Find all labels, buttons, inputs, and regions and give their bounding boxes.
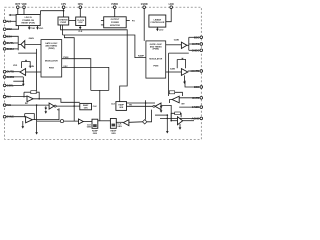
pin GNDB (left) [3, 76, 6, 79]
wire lower loop to A5 [37, 108, 59, 119]
svg-text:(PWM): (PWM) [48, 48, 55, 50]
svg-text:GEN: GEN [84, 107, 89, 109]
op-amp A7 (points left) [123, 120, 129, 126]
block S4 timer right [110, 119, 116, 129]
wire A4 out down [32, 119, 36, 121]
op-amp A1 output driver (points left) [21, 41, 25, 49]
svg-text:GEN: GEN [87, 127, 92, 129]
pin OUTE (right) [200, 97, 203, 100]
svg-text:GEN: GEN [117, 126, 122, 128]
wire BYP pin drop to U1 [17, 9, 19, 15]
ground arrow under A2 [22, 77, 24, 84]
svg-text:RAMP: RAMP [138, 55, 145, 58]
svg-text:PWM: PWM [153, 65, 158, 67]
op-amp A3 input amp (points right) [27, 96, 33, 102]
ground long right [166, 115, 168, 131]
op-amp B1 output driver (points right) [181, 42, 187, 48]
wire A6 to S3 [83, 121, 92, 123]
B3 feedback resistor box [167, 91, 170, 93]
pin CPG (top) [79, 6, 82, 9]
wire PGNDE rail [179, 106, 200, 108]
wire diamond up right [147, 110, 152, 122]
svg-text:OUTPUT: OUTPUT [111, 19, 120, 21]
svg-text:MONITOR: MONITOR [110, 25, 120, 27]
block S1 ramp gen left [80, 103, 92, 109]
wire BSTA net [6, 36, 18, 50]
pin OUTC (right) [200, 43, 203, 46]
wire A2 out to OUTB pin [6, 71, 20, 73]
pin BYP (top) [17, 6, 20, 9]
svg-text:LDO: LDO [169, 3, 174, 6]
wire bus1 (clock bus) [61, 25, 128, 102]
wire into diamond from above [145, 100, 147, 119]
wire A2 lower rail [13, 80, 23, 82]
wire LDO out arrow [37, 26, 39, 28]
wire GVDD drop to U7 [143, 9, 145, 41]
wire bottom node rail [37, 120, 79, 122]
pin GNDC (right) [200, 49, 203, 52]
op-amp B2 output driver (points right) [181, 69, 187, 76]
open node circle [60, 120, 63, 123]
svg-text:LDO: LDO [39, 28, 44, 30]
wire A1 feedback down [36, 49, 38, 53]
block U6 gate logic A (left) [41, 40, 62, 77]
svg-text:CLK: CLK [111, 104, 116, 106]
wire branch down from rail [36, 105, 38, 121]
pin GNDE (right) [200, 106, 203, 109]
block U4 output power monitor [104, 17, 127, 28]
wire S3-S4 link [98, 120, 111, 122]
double ground arrows under A5 input [45, 106, 47, 108]
wire M2 top link [127, 102, 156, 104]
pin CPV (top) [62, 6, 65, 9]
op-amp B4 feedback (points left, bubble) [155, 103, 161, 110]
wire B4 input path [161, 105, 171, 120]
wire bus2 (ramp bus) [62, 25, 64, 35]
wire U7 to B2 [166, 71, 182, 73]
pin BSA (left) [3, 35, 6, 38]
op-amp A4 comparator (points right) [26, 117, 33, 123]
op-amp B3 feedback (points left) [172, 96, 179, 103]
svg-text:PUMP: PUMP [60, 22, 66, 24]
wire INA to A3 [6, 96, 27, 98]
svg-text:CLK: CLK [78, 31, 83, 33]
svg-text:CONTROLLER: CONTROLLER [150, 22, 164, 24]
wire BSPD pin link [185, 81, 200, 88]
wire center tap down [99, 90, 101, 120]
op-amp B5 small (points right) [178, 117, 183, 125]
svg-text:GVDD: GVDD [141, 3, 148, 6]
wire U5 LDO arrow [156, 27, 158, 29]
svg-text:VDD: VDD [13, 65, 18, 67]
pin SDZ (left) [3, 28, 6, 31]
ground long bottom-left [36, 121, 38, 133]
svg-text:PWM: PWM [49, 68, 54, 70]
svg-text:CPV: CPV [61, 3, 66, 6]
A4 feedback loop [25, 114, 35, 120]
pin FLT (left) [3, 20, 6, 23]
long vertical from bus2 branch to bottom rail [64, 35, 74, 121]
B5 feedback resistor box [171, 113, 175, 120]
svg-text:PO: PO [132, 20, 135, 22]
wire PVDD drop to U4 [114, 9, 116, 17]
wire U6 out2 down [62, 67, 109, 90]
svg-text:GEN: GEN [111, 133, 116, 135]
block M2 ramp gen right [116, 102, 127, 111]
wire SDZ into U1 [6, 26, 19, 30]
svg-text:POWER-ON: POWER-ON [22, 20, 34, 22]
block S3 timer left [92, 119, 98, 128]
wire GAIN0 in [6, 84, 23, 86]
wire arrow into U1 left [10, 14, 16, 16]
svg-text:POWER: POWER [111, 22, 119, 24]
wire CPVSS drop to U3 [79, 9, 81, 18]
wire pi bridge [91, 89, 109, 91]
pin OUTD (right) [200, 70, 203, 73]
wire A1 lower link [18, 53, 36, 91]
grounds under B4 [160, 105, 162, 107]
wire S4-A7 link [116, 121, 123, 123]
wire U6 to A2 [26, 71, 41, 73]
wire B4 out left [127, 105, 153, 107]
pin GVDD (top) [143, 6, 146, 9]
wire A7 from diamond [129, 121, 143, 124]
wire B1 feedback down [169, 52, 189, 54]
svg-text:CLK: CLK [93, 106, 98, 108]
wire AGND rail [160, 117, 200, 119]
wire PGNDB stub [6, 76, 23, 78]
svg-text:LDO IN: LDO IN [25, 17, 33, 19]
svg-text:LDO: LDO [159, 30, 164, 32]
svg-text:GAIN: GAIN [29, 65, 35, 68]
svg-text:VDD: VDD [21, 3, 26, 6]
svg-text:GAIN: GAIN [170, 67, 176, 70]
svg-text:PVDD: PVDD [111, 3, 118, 6]
pin OUTB (left) [3, 70, 6, 73]
svg-text:GEN: GEN [119, 107, 124, 109]
op-amp A2 output driver (points left) [20, 69, 26, 76]
svg-text:OSC: OSC [79, 22, 84, 24]
pin GSEL (left) [3, 84, 6, 87]
pin INB (left) [3, 104, 6, 107]
wire INB rail [6, 104, 49, 106]
pin AGND (right) [200, 117, 203, 120]
block U5 linear controller [149, 15, 166, 27]
wire CLK arrow under U3 [79, 26, 81, 28]
ground under B5 [179, 124, 181, 128]
pin INA (left) [3, 95, 6, 98]
wire U7 to B1 [166, 44, 182, 46]
wire VDD pin drop to U1 [23, 9, 25, 15]
wire U6 to A1 [25, 43, 41, 45]
wire SYNC to A4 [6, 116, 26, 118]
wire B1 out node [187, 44, 189, 46]
wire U4 input stubs [101, 20, 104, 22]
A2 feedback loop over top [21, 62, 23, 68]
wire CPVDD tee to U1 and U2 [63, 9, 65, 18]
pin BSC (right) [200, 36, 203, 39]
pin PVDD (top) [113, 6, 116, 9]
op-amp A6 small buffer (points right) [79, 119, 84, 124]
wire U4 out stub [126, 19, 130, 21]
ground arrow under B2 [184, 75, 186, 82]
op-amp A5 aux (points right, bubble) [49, 103, 54, 109]
wire OUTE to B3 [179, 97, 200, 99]
wire U2-U3 link [69, 20, 76, 22]
wire A5 out [56, 105, 80, 107]
B2 feedback loop over top [176, 60, 178, 69]
wire U6 out1 down [62, 59, 91, 91]
wire B3 out [170, 100, 173, 104]
block U7 gate logic B (right) [146, 41, 166, 78]
svg-text:GEN: GEN [93, 133, 98, 135]
wire into B5 [171, 120, 177, 122]
wire B2 out to OUTD pin [188, 70, 200, 72]
ground under A4 [22, 121, 24, 127]
svg-text:GAIN: GAIN [29, 37, 35, 40]
block U3 oscillator [76, 17, 86, 26]
svg-text:POR: POR [31, 28, 36, 30]
block U1 power-on reset / LDO [16, 15, 40, 26]
pin SYNC (left) [3, 115, 6, 118]
pin BSD (right) [200, 86, 203, 89]
IC boundary (dashed) [5, 7, 202, 139]
A3 feedback resistor box [24, 91, 31, 93]
pin VDD (top) [23, 6, 26, 9]
svg-text:RESET (POR): RESET (POR) [21, 22, 35, 24]
svg-text:LINEAR: LINEAR [154, 18, 162, 21]
wire B5 out [183, 120, 194, 122]
svg-text:(PWM): (PWM) [153, 49, 160, 51]
svg-text:GAIN: GAIN [174, 38, 180, 41]
wire A3 out [33, 99, 80, 103]
svg-text:MODULATOR: MODULATOR [149, 58, 162, 61]
wire LDOO bend into U5 [166, 9, 171, 22]
svg-text:BYP: BYP [15, 3, 20, 6]
wire BSTB net [188, 37, 190, 50]
block U2 charge pump [58, 17, 69, 25]
wire A1 out node [18, 43, 21, 45]
svg-text:MODULATOR: MODULATOR [45, 60, 58, 63]
wire lower right link [155, 114, 167, 116]
wire POR out arrow [28, 26, 30, 28]
wire FAULT into U1 [6, 20, 16, 22]
pin OUTA (left) [3, 42, 6, 45]
node diamond [143, 120, 147, 124]
pin GNDA (left) [3, 48, 6, 51]
pin LDO (top) [170, 6, 173, 9]
svg-text:CPG: CPG [78, 3, 83, 6]
